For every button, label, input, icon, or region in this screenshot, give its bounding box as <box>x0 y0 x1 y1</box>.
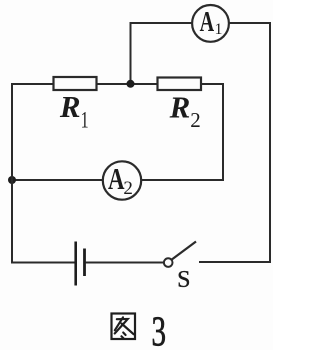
wire: R1 to R2 through junction <box>97 83 158 85</box>
ammeter A1 <box>192 5 229 42</box>
battery short plate <box>83 249 86 277</box>
svg-text:R: R <box>59 89 81 124</box>
wire: top branch vertical from junction dot up to top rail <box>130 22 132 84</box>
node: junction dot on left rail <box>8 176 16 184</box>
battery long plate <box>74 242 77 286</box>
resistor R2 <box>158 78 202 132</box>
wire: A2 left to left rail <box>11 179 103 181</box>
wire: R2 right lead, down, and across to A2 <box>142 84 224 180</box>
wire: bottom rail to battery <box>11 262 75 264</box>
svg-text:3: 3 <box>152 310 167 350</box>
wire: right vertical rail <box>269 22 271 263</box>
svg-text:2: 2 <box>123 178 132 199</box>
caption character 图 (drawn strokes) <box>112 314 136 340</box>
svg-text:A: A <box>200 7 215 38</box>
resistor R1 <box>54 77 97 133</box>
wire: left lead into R1 <box>11 83 54 85</box>
svg-text:1: 1 <box>215 21 223 38</box>
switch lever <box>172 242 196 260</box>
svg-text:R: R <box>169 90 191 125</box>
ammeter A2 <box>103 161 141 200</box>
wire: A1 right to top-right corner <box>229 22 272 24</box>
wire: battery to switch <box>86 262 164 264</box>
svg-text:2: 2 <box>190 108 201 132</box>
wire: switch to bottom-right corner <box>199 261 271 263</box>
svg-text:1: 1 <box>81 108 89 133</box>
wire: top rail left segment to ammeter A1 <box>130 22 194 24</box>
wire: left vertical rail <box>11 83 13 264</box>
node: junction dot between R1 and R2 <box>127 80 135 88</box>
svg-text:S: S <box>177 267 190 293</box>
switch pivot circle <box>164 258 173 267</box>
